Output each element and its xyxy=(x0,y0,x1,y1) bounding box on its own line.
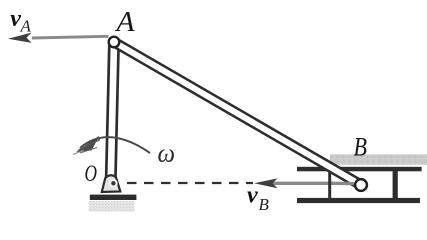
velocity vector v_B shaft (over rod) xyxy=(332,182,354,186)
slider block left edge xyxy=(328,171,331,198)
sketchy arrowhead of arc xyxy=(76,136,100,153)
angular velocity arc xyxy=(80,137,150,153)
velocity vector v_A shaft xyxy=(32,36,109,38)
ground stipple under support xyxy=(89,201,135,212)
slider bottom rail xyxy=(297,198,420,203)
svg-text:B: B xyxy=(354,133,368,162)
svg-text:A: A xyxy=(20,17,32,36)
svg-text:B: B xyxy=(259,195,270,214)
svg-text:A: A xyxy=(114,7,135,38)
svg-text:v: v xyxy=(247,183,258,209)
pin joint A xyxy=(109,37,120,48)
pivot support bracket at O xyxy=(102,175,121,192)
ground bar at O xyxy=(90,195,137,200)
slider block right edge xyxy=(393,171,398,198)
pin joint B xyxy=(355,179,367,191)
pin at O xyxy=(109,179,118,188)
velocity vector v_B arrowhead xyxy=(254,178,278,188)
svg-text:ω: ω xyxy=(158,139,176,168)
link bar OA xyxy=(111,42,114,178)
velocity vector v_B shaft xyxy=(262,182,333,185)
dashed line O to B xyxy=(127,182,253,184)
link bar AB xyxy=(114,42,360,185)
grey wash band above slider guide xyxy=(330,154,427,164)
velocity vector v_A arrowhead xyxy=(8,33,32,43)
svg-text:O: O xyxy=(85,161,98,186)
slider top rail xyxy=(297,167,422,172)
